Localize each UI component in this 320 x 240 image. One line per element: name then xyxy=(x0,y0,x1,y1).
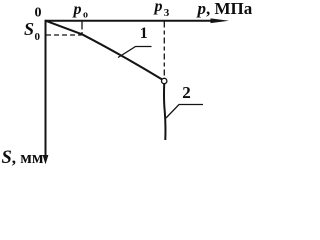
dashed tick below p_o xyxy=(81,22,83,35)
svg-text:S, мм: S, мм xyxy=(2,148,44,168)
arrowhead S-axis xyxy=(43,155,49,164)
axis p (horizontal) xyxy=(46,20,217,22)
dashed line below p_3 xyxy=(163,22,165,79)
svg-text:p, МПа: p, МПа xyxy=(196,0,253,18)
dashed line S0 level xyxy=(46,34,82,36)
leader line for label 1 xyxy=(118,47,152,58)
svg-text:о: о xyxy=(83,10,88,21)
svg-text:2: 2 xyxy=(182,83,191,102)
node at p_3 on curve (circle marker) xyxy=(162,78,167,83)
leader line for label 2 xyxy=(166,105,203,119)
curve 2 xyxy=(164,84,165,140)
svg-text:1: 1 xyxy=(140,25,148,42)
svg-text:p: p xyxy=(153,0,163,15)
svg-text:3: 3 xyxy=(164,7,170,19)
arrowhead p-axis xyxy=(211,18,230,23)
svg-text:S: S xyxy=(24,19,34,39)
axis S (vertical) xyxy=(45,20,47,158)
svg-text:p: p xyxy=(72,1,82,18)
svg-text:0: 0 xyxy=(35,6,42,21)
curve 1 xyxy=(46,21,162,80)
svg-text:0: 0 xyxy=(35,31,41,43)
